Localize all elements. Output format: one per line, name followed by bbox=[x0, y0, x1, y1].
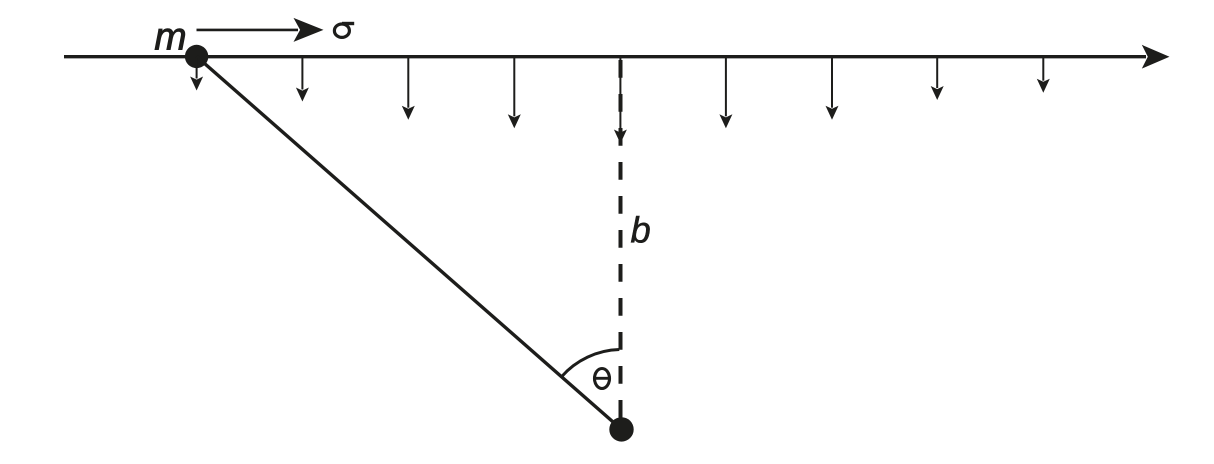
field arrow 1 bbox=[190, 58, 203, 91]
b label bbox=[631, 216, 650, 243]
field arrow 3 bbox=[402, 58, 415, 120]
angle arc theta bbox=[562, 350, 620, 377]
theta label bbox=[595, 369, 610, 389]
surface line bbox=[64, 55, 1146, 58]
field arrow 5 (center, over dashed line) bbox=[614, 58, 627, 144]
mass label m bbox=[155, 29, 185, 50]
particle dot m bbox=[185, 45, 208, 68]
bottom dot bbox=[609, 417, 633, 441]
field arrow 8 bbox=[931, 58, 944, 100]
field arrow 9 bbox=[1037, 58, 1050, 93]
field arrow 4 bbox=[508, 58, 521, 128]
velocity arrow bbox=[197, 29, 299, 32]
sigma label bbox=[334, 24, 354, 38]
field arrow 6 bbox=[719, 58, 732, 128]
surface line arrowhead bbox=[1142, 45, 1170, 69]
diagonal line from m to bottom dot bbox=[197, 57, 622, 430]
dashed line b bbox=[619, 60, 623, 418]
field arrow 7 bbox=[826, 58, 839, 120]
field arrow 2 bbox=[296, 58, 309, 102]
velocity arrowhead bbox=[294, 18, 324, 42]
